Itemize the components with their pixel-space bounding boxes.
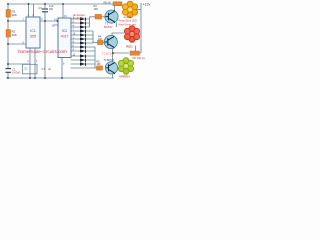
svg-text:R6 1K: R6 1K xyxy=(104,1,111,5)
svg-text:6nos 5mm LED: 6nos 5mm LED xyxy=(119,19,137,23)
LED cluster red xyxy=(124,26,139,43)
capacitor C2 xyxy=(6,69,12,73)
junction 555 pin1 ground xyxy=(34,77,36,79)
wire T1 base xyxy=(102,16,106,18)
pin numbers 4017 xyxy=(73,17,76,57)
wire 555 pin4 to rail xyxy=(28,4,30,17)
wire 4017 pin15 stub xyxy=(54,24,58,26)
resistor R6 (amber series) xyxy=(113,2,122,6)
transistor T3 xyxy=(105,62,117,74)
resistor R4 (T2 base) xyxy=(98,40,104,44)
junction T3 collector node xyxy=(112,52,114,54)
transistor T1 xyxy=(105,10,118,23)
resistor R2 xyxy=(6,30,11,38)
IC2 4017 body xyxy=(58,18,71,58)
wire C1 stubs xyxy=(44,4,46,78)
LED cluster amber xyxy=(122,1,137,18)
wire 555 pin3 to 4017 pin14 xyxy=(40,20,58,22)
wire 4017 output rows xyxy=(71,19,90,27)
wire 4017 pin16 to rail xyxy=(62,4,64,18)
junction 555 pin4 rail xyxy=(28,3,30,5)
svg-text:10K: 10K xyxy=(98,38,103,41)
box under 555 (component frame) xyxy=(23,64,38,74)
diodes D1-D12 (cathode bars) xyxy=(85,18,87,67)
svg-text:10K: 10K xyxy=(97,63,102,66)
wire top +12V rail xyxy=(8,3,114,5)
wire diode merge bus 3 xyxy=(94,47,96,68)
junction C1 clock line xyxy=(44,20,46,22)
junction box pin ground xyxy=(29,77,31,79)
wire right +12V vertical xyxy=(140,3,142,53)
wire T1 emitter down xyxy=(116,23,118,28)
junction node pin7 xyxy=(7,20,9,22)
svg-text:0.47uF: 0.47uF xyxy=(12,71,20,75)
svg-text:R8 100 1w: R8 100 1w xyxy=(133,56,146,60)
svg-text:C1: C1 xyxy=(39,6,43,10)
wire T3 emitter to ground xyxy=(112,74,114,78)
svg-text:T2 BC547: T2 BC547 xyxy=(102,52,115,56)
svg-text:10K: 10K xyxy=(12,13,17,17)
svg-text:IC2: IC2 xyxy=(62,29,68,33)
junction node pin2 xyxy=(7,63,9,65)
svg-text:T3 BC547: T3 BC547 xyxy=(104,59,115,62)
svg-text:25v: 25v xyxy=(49,7,54,11)
wire diode merge bus 2 xyxy=(92,31,94,43)
junction C1 ground xyxy=(44,77,46,79)
wire T1 collector up xyxy=(114,6,116,11)
svg-text:4017: 4017 xyxy=(61,35,69,39)
svg-text:10K: 10K xyxy=(12,33,17,37)
LED cluster green xyxy=(118,58,133,75)
wire R7 feed xyxy=(113,52,130,54)
svg-text:RED: RED xyxy=(126,45,133,49)
junction node pin6 xyxy=(7,43,9,45)
svg-text:+12v: +12v xyxy=(143,3,151,7)
wire 555 pin1 to ground xyxy=(34,48,36,78)
resistor R5 (T3 base) xyxy=(97,66,103,70)
svg-text:homemade-circuits.com: homemade-circuits.com xyxy=(18,49,67,54)
junction C2 ground xyxy=(7,77,9,79)
wire 555 pin7 xyxy=(8,20,26,22)
IC1 555 body xyxy=(26,17,40,48)
wire T2 collector xyxy=(112,33,124,36)
resistor R1 xyxy=(6,10,11,18)
pin numbers 555 xyxy=(23,14,68,66)
wire amber cluster to +12V xyxy=(137,9,142,11)
wire T2 base xyxy=(103,42,105,44)
wire T2 emitter / T3 collector column xyxy=(112,48,114,61)
wire bottom ground rail xyxy=(6,77,114,79)
wire 4017 pin8 to ground xyxy=(61,58,63,79)
junction 4017 pin16 rail xyxy=(62,3,64,5)
svg-text:10K: 10K xyxy=(94,8,99,11)
junction R1 top rail xyxy=(7,3,9,5)
svg-text:GREEN: GREEN xyxy=(119,75,130,79)
resistor R3 (T1 base) xyxy=(95,14,102,19)
svg-text:6nos 5mm red: 6nos 5mm red xyxy=(119,22,137,26)
wire 555 pin6 xyxy=(8,43,26,45)
resistor R7 (lower series) xyxy=(130,51,140,55)
wire diode merge bus 1 xyxy=(89,17,91,27)
wire T2 base feed xyxy=(93,42,98,44)
wire red cluster to R7 xyxy=(135,46,137,52)
svg-text:BC547: BC547 xyxy=(104,25,113,29)
wire R7 to +12V xyxy=(139,52,141,54)
wire red cluster to +12V xyxy=(140,33,142,35)
wire 555 pin8 to rail xyxy=(33,4,35,17)
svg-text:555: 555 xyxy=(30,35,36,39)
capacitor C1 xyxy=(42,9,48,12)
junction 4017 pin14 xyxy=(57,20,59,22)
wire 555 pin2 xyxy=(8,48,30,78)
svg-text:IC1: IC1 xyxy=(30,29,36,33)
svg-text:amber: amber xyxy=(124,15,132,19)
junction 4017 pin8 ground xyxy=(61,77,63,79)
wire left component chain xyxy=(7,4,9,78)
wire T1 base feed xyxy=(90,16,96,18)
svg-text:1N4148: 1N4148 xyxy=(73,16,83,20)
transistor T2 xyxy=(104,35,117,48)
diodes D1-D12 (triangles) xyxy=(80,17,85,66)
junction C1 rail xyxy=(44,3,46,5)
